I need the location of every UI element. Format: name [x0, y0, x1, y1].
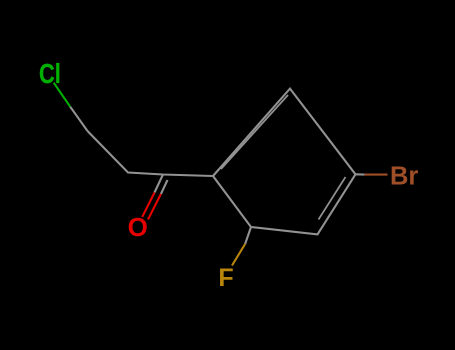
- svg-text:Cl: Cl: [39, 58, 61, 89]
- svg-text:O: O: [128, 212, 148, 242]
- svg-text:F: F: [218, 264, 233, 292]
- svg-text:Br: Br: [390, 162, 418, 190]
